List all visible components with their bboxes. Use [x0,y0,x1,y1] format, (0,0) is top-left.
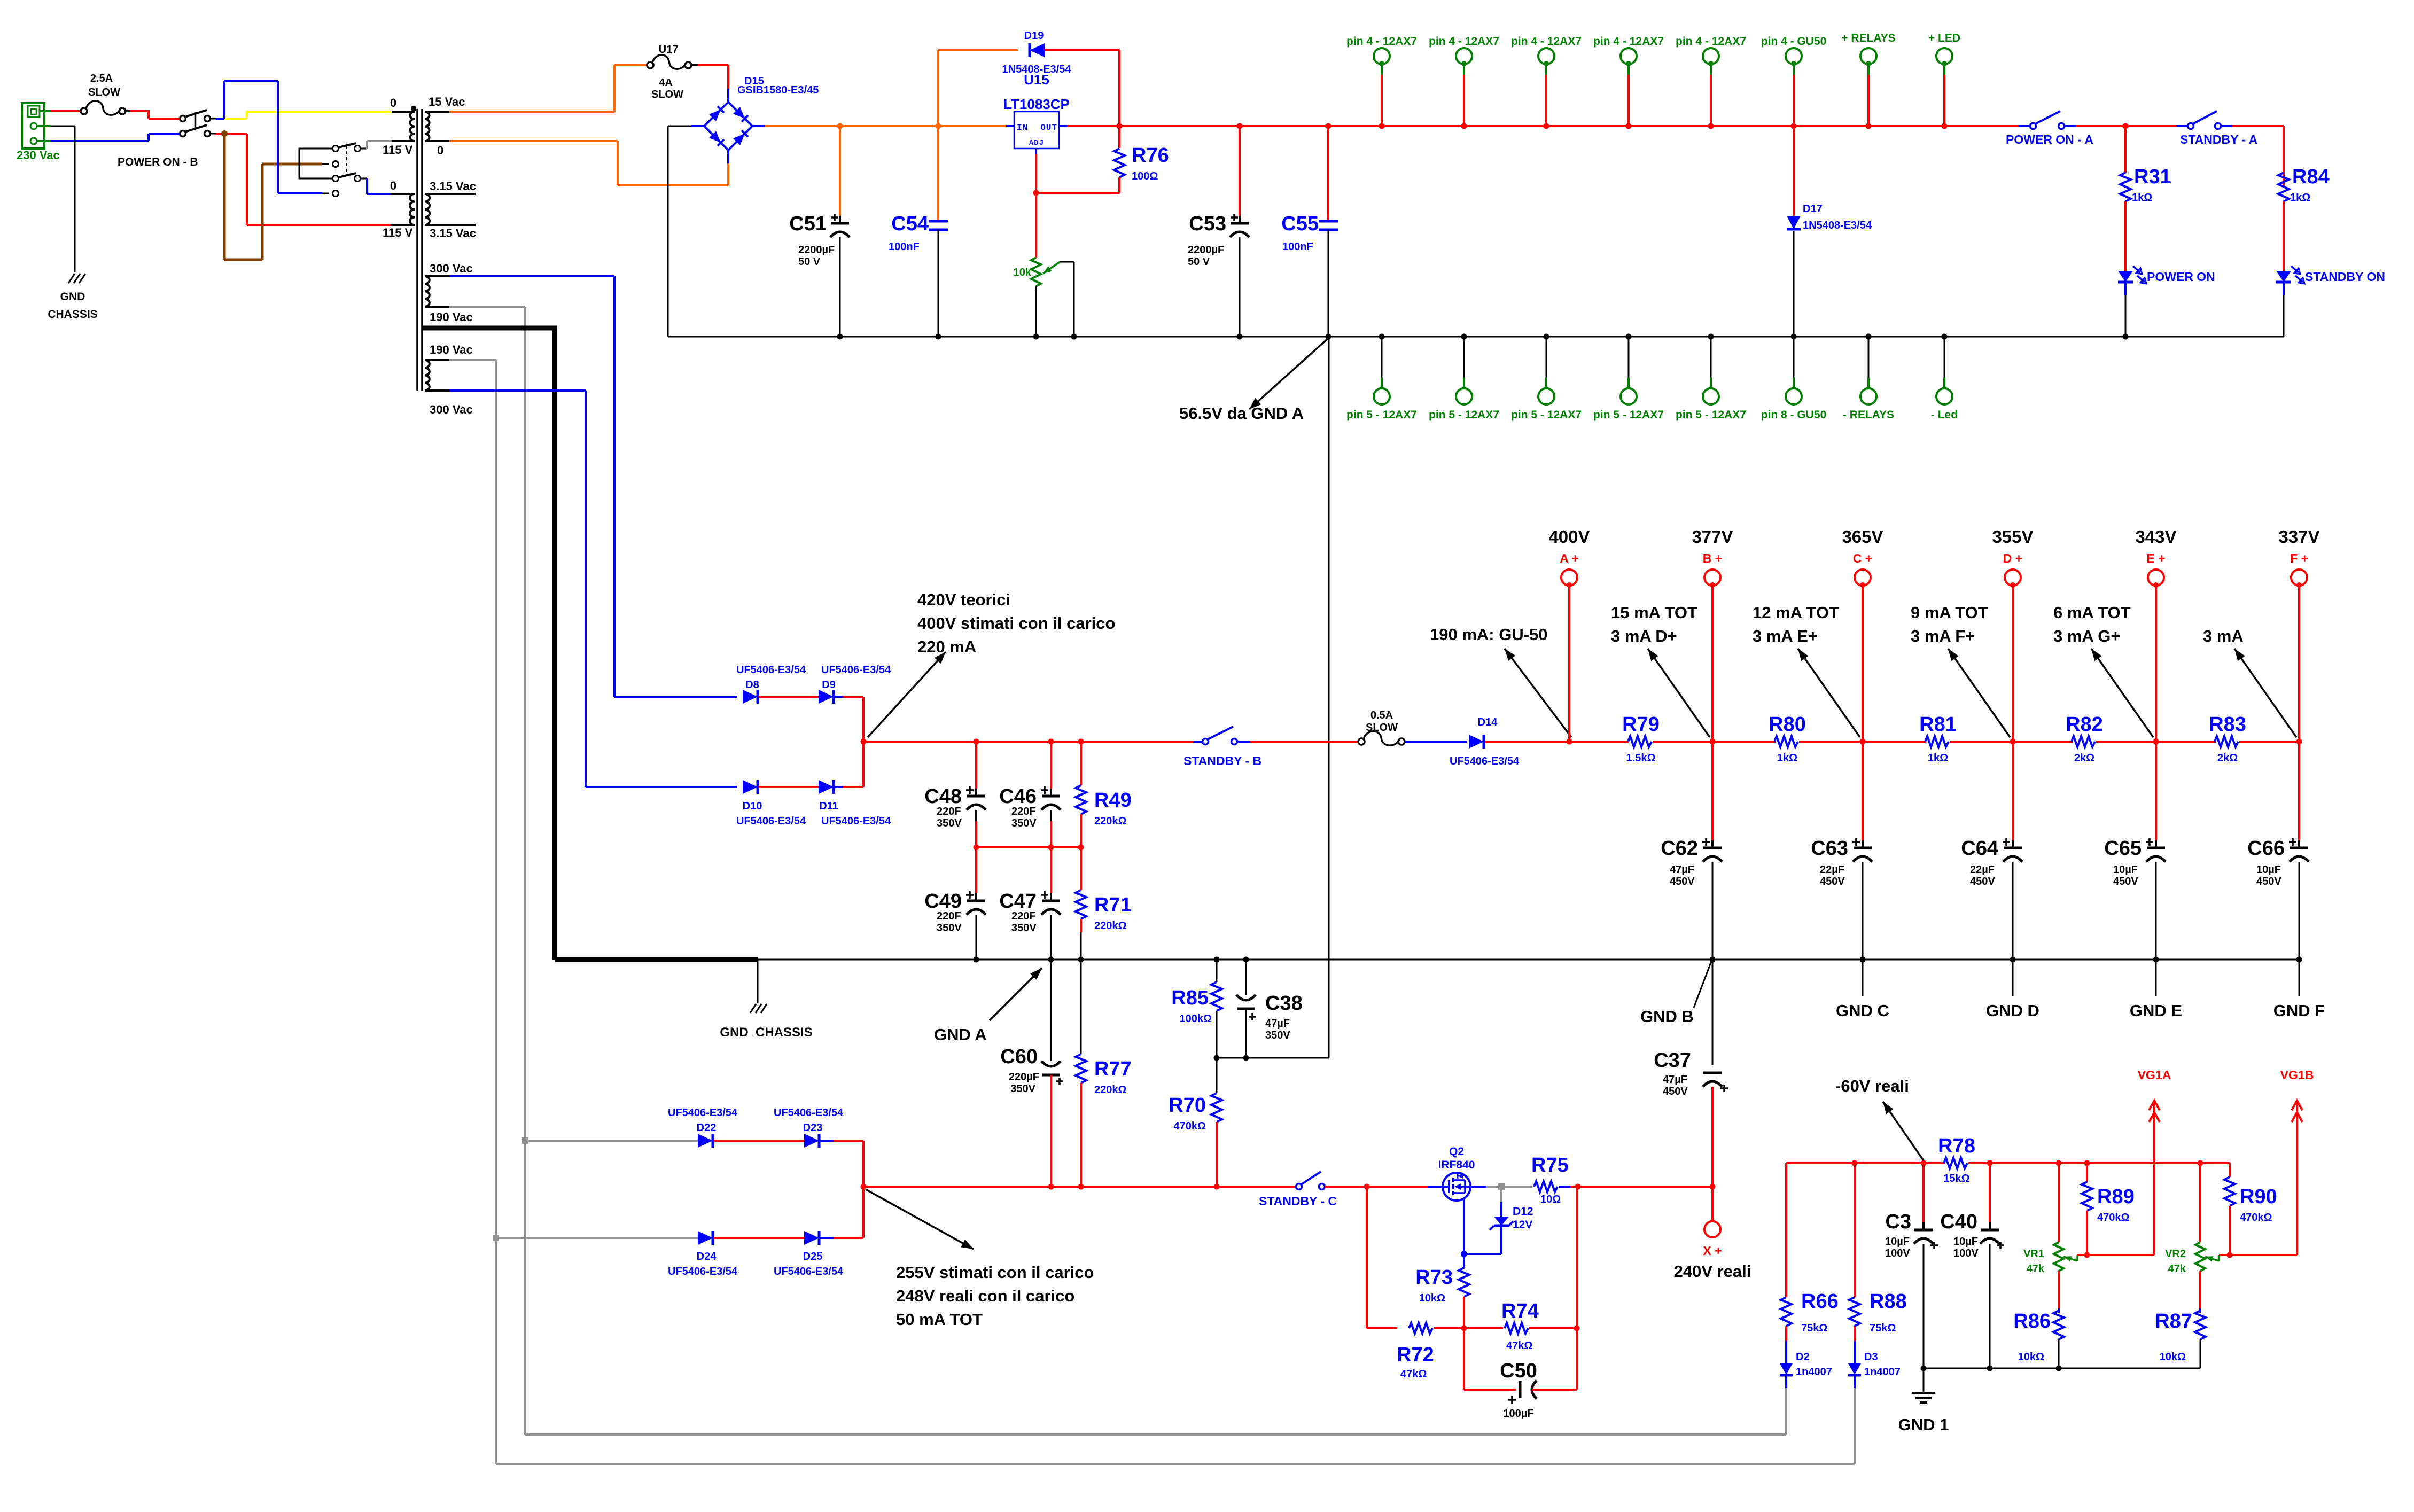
svg-text:100kΩ: 100kΩ [1179,1013,1212,1025]
label 50 mA TOT [896,1310,983,1329]
resistor R80 [1712,736,1863,747]
node C51 top [837,123,843,129]
wire Q2 source gray [1470,1186,1532,1188]
svg-text:12 mA TOT: 12 mA TOT [1753,603,1839,622]
svg-text:R49: R49 [1094,789,1132,812]
svg-text:47kΩ: 47kΩ [1400,1368,1427,1380]
svg-text:15 Vac: 15 Vac [429,95,465,108]
svg-text:377V: 377V [1692,527,1733,547]
label pin 5 - 12AX7 bottom [1593,409,1664,421]
svg-text:SLOW: SLOW [651,89,683,100]
node gnd C66 [2296,957,2302,963]
label 3 mA E+ [1753,627,1818,645]
label P2 0 [390,179,396,192]
node gnd pin 3639 [1942,334,1948,340]
svg-text:GND A: GND A [934,1025,987,1044]
label - RELAYS bottom [1843,409,1894,421]
label D9 [822,679,836,691]
node E+ [2153,739,2159,745]
label C50 [1500,1360,1537,1382]
svg-text:240V reali: 240V reali [1674,1262,1751,1281]
svg-text:343V: 343V [2135,527,2176,547]
label 400V [1548,527,1590,547]
svg-text:2kΩ: 2kΩ [2217,752,2238,764]
wire bridge plus orange [752,125,1006,127]
label VG1A [2138,1068,2171,1082]
capacitor C47 [1041,847,1061,960]
label UF5406 D23 [774,1107,844,1119]
node A+ [1567,739,1572,745]
switch POWER ON - B pole B [180,112,211,137]
label 15 mA TOT [1611,603,1697,622]
diode D14 [1469,735,1484,749]
resistor R90 [2224,1177,2235,1255]
diode D9 [819,690,834,704]
svg-text:UF5406-E3/54: UF5406-E3/54 [774,1266,844,1277]
wire blue selector loop [224,81,329,193]
contact selector blue row [333,191,339,197]
label UF5406 D14 [1450,755,1520,767]
svg-text:3 mA F+: 3 mA F+ [1911,627,1975,645]
label 420V teorici [917,590,1010,609]
wire stub GND D [2012,960,2014,996]
capacitor C63 [1853,742,1872,960]
label C66 [2247,837,2296,860]
svg-text:U15: U15 [1024,72,1049,88]
svg-text:R77: R77 [1094,1058,1132,1080]
transformer core [411,106,422,391]
svg-text:450V: 450V [2113,876,2138,887]
wire orange 15Vac to fuse U17 [449,65,647,112]
svg-text:POWER ON - A: POWER ON - A [2006,133,2093,146]
svg-text:190 mA: GU-50: 190 mA: GU-50 [1430,625,1548,644]
ground GND CHASSIS (left) [68,274,85,283]
label C60 [1000,1046,1038,1068]
terminal C+ [1855,570,1871,742]
label R83 2k [2217,752,2238,764]
capacitor C60 [1041,960,1063,1187]
svg-text:470kΩ: 470kΩ [1173,1120,1206,1132]
terminal E+ [2148,570,2164,742]
svg-text:SLOW: SLOW [88,87,120,98]
label STANDBY ON led [2305,270,2385,284]
svg-text:0: 0 [390,96,396,110]
svg-text:D12: D12 [1513,1205,1533,1218]
label 3 mA D+ [1611,627,1677,645]
svg-text:R78: R78 [1938,1135,1975,1157]
wire to fuse F2 [1250,741,1358,743]
switch voltage selector pole 2 [333,173,361,182]
node gray D22 [522,1137,528,1144]
node rail pin 3497 [1866,123,1872,129]
svg-text:75kΩ: 75kΩ [1801,1322,1827,1334]
svg-text:220 mA: 220 mA [917,637,976,656]
capacitor C3 [1914,1163,1938,1368]
label 190 mA GU-50 [1430,625,1548,644]
svg-text:47kΩ: 47kΩ [1506,1340,1532,1352]
node gnd pin 3048 [1626,334,1632,340]
zener D12 [1464,1187,1513,1254]
svg-text:365V: 365V [1842,527,1883,547]
label R81 1k [1928,752,1948,764]
label D12 [1513,1205,1533,1218]
svg-text:6 mA TOT: 6 mA TOT [2053,603,2131,622]
label GND A [934,1025,987,1044]
svg-text:R73: R73 [1415,1266,1453,1289]
label R81 [1919,713,1957,736]
terminal pin 4 - 12AX7 (top) [1621,48,1637,126]
label C55 [1281,213,1319,235]
svg-text:C40: C40 [1940,1211,1977,1233]
switch POWER ON - B pole A [180,110,211,122]
arrow 56.5V [1249,338,1328,409]
label D19 1N5408-E3/54 [1002,64,1072,75]
wire bias bus [863,1186,1296,1188]
svg-text:UF5406-E3/54: UF5406-E3/54 [736,815,806,827]
wire gray 190Vac upper [449,307,525,1435]
resistor R84 [2278,173,2289,271]
svg-text:pin 5 - 12AX7: pin 5 - 12AX7 [1593,409,1664,421]
label D2 [1796,1351,1810,1363]
wire D22-D23 [714,1140,804,1142]
label POWER ON led [2147,270,2215,284]
svg-text:15kΩ: 15kΩ [1943,1173,1969,1184]
resistor R78 [1924,1158,1990,1168]
label C37 [1654,1049,1691,1072]
svg-text:2.5A: 2.5A [90,73,113,84]
label S4 300 Vac [430,403,473,416]
label R87 10k [2160,1351,2186,1363]
node gate node gray [1498,1183,1505,1190]
svg-text:9 mA TOT: 9 mA TOT [1911,603,1988,622]
label P1 115V [383,143,413,157]
label R88 75k [1870,1322,1896,1334]
label GND CHASSIS [48,291,97,321]
svg-text:R80: R80 [1769,713,1806,736]
node gnd C38 [1243,957,1249,963]
node rail C53 [1237,123,1243,129]
svg-text:D17: D17 [1803,203,1823,215]
svg-text:C64: C64 [1961,837,1998,860]
wire thick 0V center tap [423,328,555,960]
arrow GND A [990,968,1042,1020]
wire gray selector to 115V [361,141,392,149]
label pin 4 - 12AX7 top [1511,35,1582,48]
node gnd pin 3202 [1708,334,1714,340]
arrow 420V [868,652,946,737]
svg-text:1N5408-E3/54: 1N5408-E3/54 [1803,220,1872,231]
label pin 8 - GU50 bottom [1761,409,1827,421]
label C64 [1961,837,2010,860]
svg-text:pin 5 - 12AX7: pin 5 - 12AX7 [1346,409,1417,421]
svg-text:C66: C66 [2247,837,2285,860]
svg-text:0.5A: 0.5A [1370,710,1393,721]
node gnd pot [1033,334,1077,340]
label pin 4 - 12AX7 top [1593,35,1664,48]
label UF5406 D8 [736,664,806,676]
svg-text:R86: R86 [2013,1310,2051,1332]
svg-text:3 mA G+: 3 mA G+ [2053,627,2120,645]
terminal pin 4 - 12AX7 (top) [1538,48,1554,126]
svg-text:100nF: 100nF [1282,241,1313,253]
label C65 values [2113,864,2138,887]
capacitor C53 [1230,126,1249,337]
label C38 [1265,992,1303,1015]
diode D11 [819,780,834,794]
svg-text:D2: D2 [1796,1351,1810,1363]
svg-text:VG1B: VG1B [2280,1068,2314,1082]
svg-text:C60: C60 [1000,1046,1038,1068]
svg-text:10kΩ: 10kΩ [2018,1351,2044,1363]
resistor R66 [1781,1163,1792,1341]
label R80 1k [1777,752,1797,764]
label C65 [2104,837,2153,860]
svg-text:C63: C63 [1811,837,1848,860]
label C + [1853,551,1872,565]
svg-text:R70: R70 [1169,1094,1206,1117]
node R90 bottom [2227,1252,2233,1258]
node R88 top [1852,1160,1858,1166]
svg-text:STANDBY - B: STANDBY - B [1183,754,1261,768]
wire -60V bus right [1990,1163,2230,1177]
svg-text:STANDBY ON: STANDBY ON [2305,270,2385,284]
label Q2 [1449,1145,1464,1158]
label D11 [819,800,838,812]
arrow 255V [866,1189,974,1249]
label R86 10k [2018,1351,2044,1363]
wire bridge minus to gnd [668,126,704,337]
label 3 mA F+ [1911,627,1975,645]
svg-text:420V teorici: 420V teorici [917,590,1010,609]
svg-text:50 V: 50 V [798,256,821,268]
wire Q2 drain down [1367,1187,1397,1328]
svg-text:255V stimati con il carico: 255V stimati con il carico [896,1263,1094,1282]
terminal + LED (top) [1936,48,1952,126]
label S1 0 [437,144,443,157]
terminal pin 4 - 12AX7 (top) [1374,48,1390,126]
label R74 47k [1506,1340,1532,1352]
svg-text:1kΩ: 1kΩ [2132,192,2152,204]
wire D19 bypass [938,50,1119,126]
node B+ [1710,739,1716,745]
label R31 [2134,166,2171,188]
svg-text:R76: R76 [1132,144,1169,167]
svg-text:D11: D11 [819,800,838,812]
secondary coil S2 3.15Vac [425,194,476,225]
svg-text:50 V: 50 V [1188,256,1210,268]
node D+ [2010,739,2016,745]
node bias C60 [1048,1184,1054,1190]
svg-text:190 Vac: 190 Vac [430,310,473,324]
node bias R70 [1214,1184,1220,1190]
node gnd pin 2586 [1379,334,1385,340]
wire blue 300Vac top [449,276,737,697]
label R75 [1531,1154,1569,1176]
svg-text:D10: D10 [743,800,762,812]
svg-text:1.5kΩ: 1.5kΩ [1626,752,1656,764]
wire L red to fuse [51,110,81,112]
capacitor C50 [1464,1328,1577,1404]
label R89 470k [2097,1212,2130,1223]
label GSIB1580-E3/45 [737,84,819,96]
svg-text:U17: U17 [659,44,679,56]
label 377V [1692,527,1733,547]
node gnd R86 [2056,1366,2062,1371]
svg-text:C46: C46 [999,785,1037,808]
arrow VG1B [2292,1101,2302,1255]
node rail C55 [1326,123,1331,129]
svg-text:220kΩ: 220kΩ [1094,815,1127,827]
svg-text:15 mA TOT: 15 mA TOT [1611,603,1697,622]
terminal pin 5 - 12AX7 (bottom) [1538,337,1554,404]
node gnd pin 3497 [1866,334,1872,340]
svg-text:R79: R79 [1622,713,1660,736]
label 6 mA TOT [2053,603,2131,622]
svg-text:GND B: GND B [1640,1007,1694,1026]
svg-text:pin 4 - 12AX7: pin 4 - 12AX7 [1429,35,1499,48]
node rail pin 3639 [1942,123,1948,129]
wire GND A bus [758,959,2299,961]
label D3 1n4007 [1864,1366,1901,1378]
svg-text:220F: 220F [937,806,961,817]
potentiometer VR2 [2195,1163,2219,1308]
label GND_CHASSIS [720,1025,812,1040]
label pin 4 - GU50 top [1761,35,1827,48]
node C+ [1860,739,1866,745]
svg-text:47µF: 47µF [1670,864,1694,876]
node gnd pin 2740 [1461,334,1467,340]
wire -60V bus left [1786,1162,1924,1164]
svg-text:R84: R84 [2292,166,2330,188]
svg-text:X +: X + [1703,1244,1722,1258]
svg-text:337V: 337V [2278,527,2319,547]
label C55 100nF [1282,241,1313,253]
svg-text:47k: 47k [2027,1263,2045,1275]
label D2 1n4007 [1796,1366,1832,1378]
node R74 out [1574,1326,1580,1331]
wire main rail to POWER ON A [1119,125,2019,127]
resistor R75 [1534,1181,1575,1192]
node bus R49 [1078,739,1084,745]
node rail pin 3357 [1791,123,1797,129]
wire D14 out [1485,741,1569,743]
node bias R77 [1078,1184,1084,1190]
svg-text:VG1A: VG1A [2138,1068,2171,1082]
wire N blue to switch [51,134,180,141]
resistor R74 [1464,1323,1577,1334]
svg-text:350V: 350V [1265,1030,1290,1041]
wire D9 out [835,697,863,742]
capacitor C49 [967,847,986,960]
svg-text:220F: 220F [1011,910,1036,922]
label 337V [2278,527,2319,547]
label 400V stimati [917,614,1115,633]
svg-text:R85: R85 [1171,987,1209,1009]
svg-text:B +: B + [1703,551,1722,565]
resistor R76 [1114,126,1125,193]
switch STANDBY - A [2176,111,2232,129]
label R89 [2097,1186,2135,1208]
svg-text:C48: C48 [924,785,962,808]
node mid R49 [1078,845,1084,851]
svg-text:47k: 47k [2168,1263,2186,1275]
svg-text:IRF840: IRF840 [1438,1159,1475,1171]
arrow 6mA [2091,649,2153,737]
svg-text:CHASSIS: CHASSIS [48,308,97,321]
wire gray to D22 [525,1140,698,1142]
node gnd C40 [1987,1366,1993,1371]
wire yellow switch to primary [211,112,391,119]
label R82 [2066,713,2103,736]
svg-text:LT1083CP: LT1083CP [1003,96,1070,112]
label C54 100nF [889,241,920,253]
label C48 values [937,806,962,829]
svg-text:R88: R88 [1870,1290,1907,1313]
svg-text:pin 5 - 12AX7: pin 5 - 12AX7 [1429,409,1499,421]
label D19 [1024,30,1044,42]
svg-text:C47: C47 [999,890,1037,913]
svg-text:pin 5 - 12AX7: pin 5 - 12AX7 [1676,409,1746,421]
wire stub GND F [2299,960,2300,996]
secondary coil S4 300Vac lower [425,360,449,391]
label D25 [803,1251,823,1262]
svg-text:STANDBY - C: STANDBY - C [1259,1194,1337,1208]
wire gray up to D2 [525,1388,1786,1435]
wire R74 up [1576,1187,1578,1328]
terminal pin 5 - 12AX7 (bottom) [1703,337,1719,404]
arrow 12mA [1798,649,1860,737]
capacitor C54 [929,126,948,337]
label 355V [1992,527,2033,547]
resistor R79 [1569,736,1712,747]
svg-text:R72: R72 [1397,1344,1434,1366]
svg-text:220F: 220F [1011,806,1036,817]
svg-text:R90: R90 [2240,1186,2277,1208]
svg-text:pin 4 - 12AX7: pin 4 - 12AX7 [1511,35,1582,48]
wire D11 out [835,742,863,787]
svg-text:R81: R81 [1919,713,1957,736]
capacitor C51 [830,126,850,337]
resistor R77 [1076,960,1086,1187]
diode D19 [1030,43,1045,57]
label C49 values [937,910,962,934]
label R86 [2013,1310,2051,1332]
led STANDBY ON [2276,266,2304,337]
label pin 5 - 12AX7 bottom [1346,409,1417,421]
svg-text:350V: 350V [1011,922,1037,934]
label C40 values [1953,1236,1979,1259]
svg-text:450V: 450V [1970,876,1995,887]
svg-text:47µF: 47µF [1663,1074,1687,1086]
arrow -60V [1883,1102,1924,1160]
potentiometer 10k [1031,258,1074,337]
svg-text:POWER ON: POWER ON [2147,270,2215,284]
label 56.5V da GND A [1179,404,1304,423]
secondary coil S1 15Vac [425,112,449,141]
ground GND_CHASSIS stub [750,960,767,1013]
label D8 [745,679,759,691]
label C37 values [1663,1074,1688,1097]
node gnd R71 [1078,957,1084,963]
wire rail to STANDBY A [2076,125,2176,127]
capacitor C62 [1703,742,1722,960]
transistor Q2 IRF840 [1443,1173,1470,1201]
terminal pin 5 - 12AX7 (bottom) [1374,337,1390,404]
label C53 values [1188,244,1224,268]
led POWER ON [2118,266,2146,337]
label 255V stimati [896,1263,1094,1282]
node mid C46 [1048,845,1054,851]
